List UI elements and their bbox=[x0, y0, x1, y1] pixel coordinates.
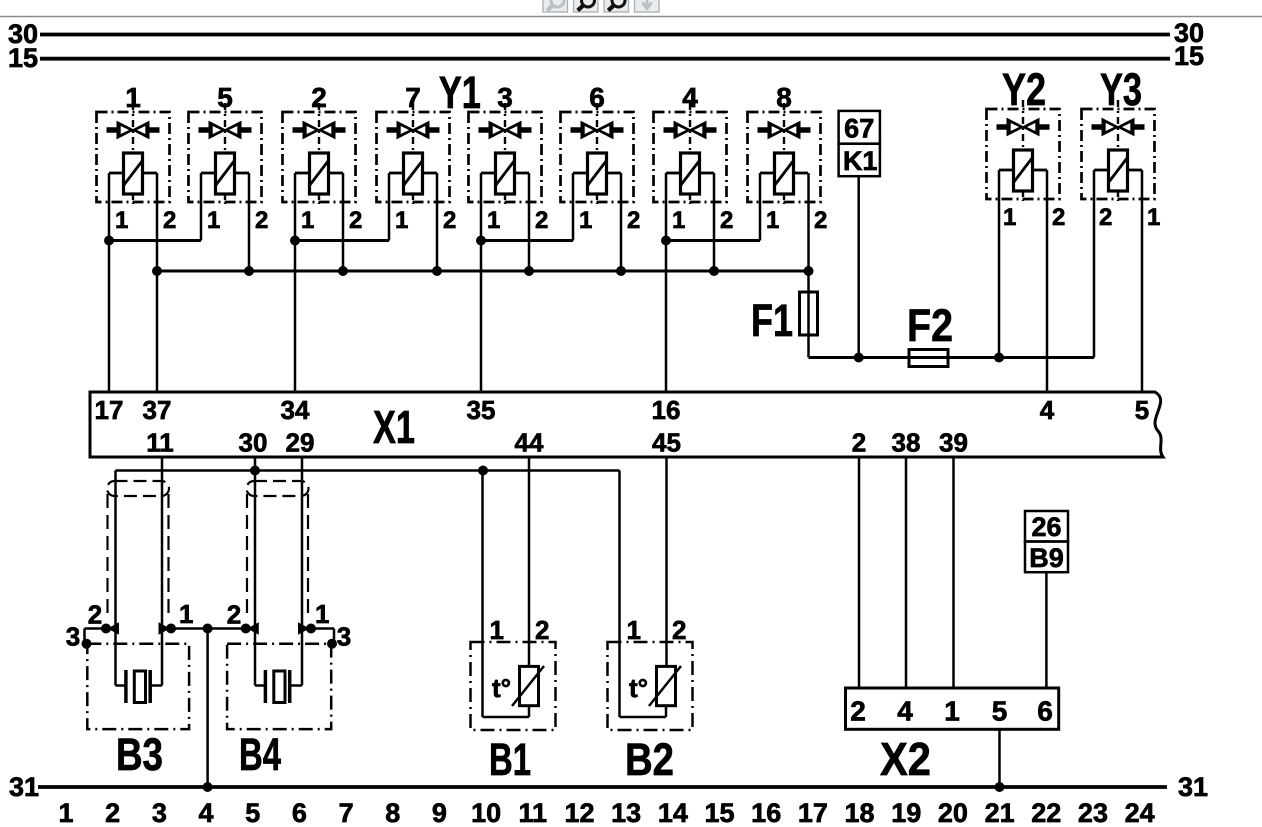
svg-text:1: 1 bbox=[315, 599, 329, 629]
svg-text:5: 5 bbox=[245, 798, 260, 827]
svg-text:7: 7 bbox=[405, 82, 421, 113]
svg-text:t°: t° bbox=[492, 673, 511, 703]
svg-text:2: 2 bbox=[163, 207, 176, 234]
svg-text:14: 14 bbox=[658, 798, 688, 827]
svg-text:4: 4 bbox=[1040, 395, 1055, 425]
svg-text:10: 10 bbox=[471, 798, 501, 827]
svg-text:t°: t° bbox=[629, 673, 648, 703]
svg-text:B1: B1 bbox=[489, 734, 531, 785]
svg-text:Y2: Y2 bbox=[1002, 64, 1046, 115]
svg-text:37: 37 bbox=[143, 395, 172, 425]
svg-text:24: 24 bbox=[1125, 798, 1155, 827]
svg-text:4: 4 bbox=[897, 696, 913, 727]
svg-text:8: 8 bbox=[776, 82, 792, 113]
svg-text:1: 1 bbox=[58, 798, 73, 827]
svg-text:6: 6 bbox=[1037, 696, 1053, 727]
svg-text:Y3: Y3 bbox=[1100, 64, 1142, 115]
svg-text:26: 26 bbox=[1031, 512, 1061, 542]
svg-text:1: 1 bbox=[487, 207, 500, 234]
svg-text:11: 11 bbox=[519, 798, 548, 827]
svg-text:X1: X1 bbox=[373, 401, 415, 453]
svg-text:2: 2 bbox=[88, 600, 102, 630]
svg-text:2: 2 bbox=[349, 207, 362, 234]
svg-text:1: 1 bbox=[672, 207, 685, 234]
svg-text:1: 1 bbox=[125, 82, 141, 113]
svg-text:2: 2 bbox=[1052, 204, 1065, 231]
svg-text:1: 1 bbox=[301, 207, 314, 234]
svg-text:1: 1 bbox=[490, 615, 504, 645]
svg-text:4: 4 bbox=[199, 798, 214, 827]
svg-text:1: 1 bbox=[395, 207, 408, 234]
svg-text:6: 6 bbox=[292, 798, 307, 827]
svg-text:3: 3 bbox=[337, 622, 351, 652]
svg-text:30: 30 bbox=[239, 428, 268, 458]
svg-text:67: 67 bbox=[844, 114, 874, 144]
svg-text:44: 44 bbox=[515, 428, 544, 458]
svg-text:2: 2 bbox=[227, 600, 241, 630]
svg-text:15: 15 bbox=[8, 43, 38, 73]
svg-text:Y1: Y1 bbox=[439, 67, 481, 118]
svg-text:F2: F2 bbox=[907, 300, 953, 351]
svg-text:2: 2 bbox=[627, 207, 640, 234]
svg-text:2: 2 bbox=[311, 82, 327, 113]
svg-text:2: 2 bbox=[1099, 204, 1112, 231]
svg-text:15: 15 bbox=[1174, 41, 1204, 71]
svg-text:X2: X2 bbox=[880, 733, 931, 785]
svg-text:21: 21 bbox=[985, 798, 1015, 827]
svg-text:2: 2 bbox=[105, 798, 120, 827]
svg-text:8: 8 bbox=[385, 798, 400, 827]
svg-text:2: 2 bbox=[535, 207, 548, 234]
svg-text:2: 2 bbox=[850, 696, 866, 727]
svg-text:1: 1 bbox=[1147, 204, 1160, 231]
svg-text:11: 11 bbox=[146, 428, 174, 458]
svg-text:2: 2 bbox=[443, 207, 456, 234]
svg-text:39: 39 bbox=[939, 428, 968, 458]
svg-text:1: 1 bbox=[766, 207, 779, 234]
svg-text:1: 1 bbox=[579, 207, 592, 234]
svg-text:17: 17 bbox=[798, 798, 828, 827]
svg-text:34: 34 bbox=[281, 395, 310, 425]
svg-text:9: 9 bbox=[432, 798, 447, 827]
svg-text:2: 2 bbox=[672, 615, 686, 645]
svg-text:1: 1 bbox=[627, 615, 641, 645]
svg-text:13: 13 bbox=[611, 798, 641, 827]
svg-text:3: 3 bbox=[497, 82, 513, 113]
svg-text:2: 2 bbox=[535, 615, 549, 645]
svg-text:2: 2 bbox=[720, 207, 733, 234]
svg-text:22: 22 bbox=[1031, 798, 1061, 827]
svg-text:16: 16 bbox=[652, 395, 681, 425]
svg-text:5: 5 bbox=[217, 82, 233, 113]
svg-text:3: 3 bbox=[152, 798, 167, 827]
svg-text:5: 5 bbox=[1135, 395, 1149, 425]
svg-text:B2: B2 bbox=[625, 734, 674, 785]
svg-text:5: 5 bbox=[992, 696, 1008, 727]
svg-text:35: 35 bbox=[467, 395, 496, 425]
svg-text:1: 1 bbox=[944, 696, 960, 727]
svg-text:20: 20 bbox=[938, 798, 968, 827]
svg-text:2: 2 bbox=[255, 207, 268, 234]
svg-text:18: 18 bbox=[845, 798, 875, 827]
svg-text:12: 12 bbox=[564, 798, 594, 827]
svg-text:1: 1 bbox=[115, 207, 128, 234]
svg-text:16: 16 bbox=[751, 798, 781, 827]
svg-text:1: 1 bbox=[1003, 204, 1016, 231]
svg-text:2: 2 bbox=[814, 207, 827, 234]
svg-text:B4: B4 bbox=[239, 729, 281, 780]
svg-text:7: 7 bbox=[339, 798, 354, 827]
svg-text:45: 45 bbox=[652, 428, 681, 458]
svg-text:38: 38 bbox=[892, 428, 921, 458]
svg-text:4: 4 bbox=[682, 82, 698, 113]
svg-text:F1: F1 bbox=[751, 295, 793, 346]
svg-text:1: 1 bbox=[207, 207, 220, 234]
svg-text:31: 31 bbox=[9, 772, 39, 802]
svg-text:K1: K1 bbox=[843, 146, 878, 176]
svg-text:31: 31 bbox=[1178, 772, 1208, 802]
svg-text:19: 19 bbox=[891, 798, 921, 827]
svg-text:3: 3 bbox=[66, 622, 80, 652]
svg-text:2: 2 bbox=[852, 428, 866, 458]
svg-text:15: 15 bbox=[704, 798, 734, 827]
svg-text:29: 29 bbox=[286, 428, 315, 458]
svg-text:6: 6 bbox=[589, 82, 605, 113]
svg-text:B3: B3 bbox=[116, 729, 163, 780]
svg-text:23: 23 bbox=[1078, 798, 1108, 827]
svg-text:B9: B9 bbox=[1029, 543, 1064, 573]
svg-text:1: 1 bbox=[179, 599, 193, 629]
svg-text:17: 17 bbox=[95, 395, 124, 425]
